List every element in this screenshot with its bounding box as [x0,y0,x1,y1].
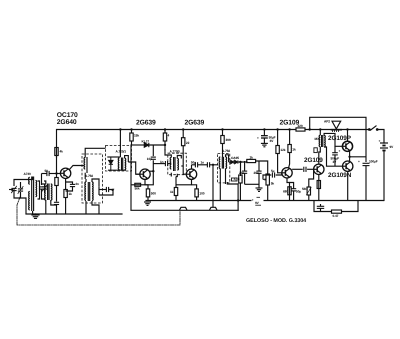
wire collector to driver cap [292,168,303,170]
wire R1 to base node [56,156,58,178]
IFT1 transformer windings [118,158,119,170]
wire secondary taps [38,181,40,199]
midpoint cap 500uF between bases [332,146,338,166]
wire antenna top [14,177,33,187]
wire 470 resistor [175,177,177,189]
antenna input stub [9,189,13,191]
wire Q2 emitter [145,179,148,189]
wire 1k leads [289,130,291,145]
wire diode to load [229,161,231,163]
secondary winding driver transformer [324,136,325,148]
node rail x347.5 [346,128,348,130]
node rail x277.6 [276,128,278,130]
svg-text:22: 22 [186,141,190,145]
battery 9V [380,143,388,151]
svg-text:2G109: 2G109 [280,119,300,126]
svg-text:50: 50 [45,169,49,173]
svg-text:A.775B: A.775B [170,149,181,153]
resistor R2 bias [55,178,58,186]
wire Q4 collector [289,157,290,169]
resistor R1 4k collector feed [55,148,58,156]
capacitor 10p [151,157,156,159]
svg-text:680: 680 [283,190,288,194]
wire cap into box [168,163,172,165]
wire bias bottom [56,205,58,215]
wire IFT1 secondary out to T2 base [128,162,140,174]
svg-text:2G109N: 2G109N [328,172,352,179]
svg-text:4k: 4k [60,150,64,154]
wire R9 leads [222,130,224,136]
svg-text:1k: 1k [170,190,174,194]
svg-text:399: 399 [226,138,231,142]
resistor 680 emitter Q4 [288,187,291,195]
wire top supply rail [57,130,369,158]
svg-text:1k: 1k [250,156,254,160]
wire R6 down [147,197,149,201]
svg-text:A.756: A.756 [222,149,230,153]
wire primary top [319,130,321,136]
node base T1 [55,172,57,174]
wire Q3 emitter [192,179,197,189]
transistor Q2 2G639 IF1 [140,169,150,179]
wire lower line right [342,201,359,212]
wire C2 leads [20,182,22,188]
svg-text:+: + [252,198,254,202]
dash-dot tuning gang link [17,197,180,225]
svg-text:OC170: OC170 [57,112,78,119]
svg-text:2G639: 2G639 [185,119,205,126]
electrolytic 5uF coupling [272,172,274,177]
driver transformer winding [319,135,320,147]
wire rail to IFT1 [119,130,121,158]
IFT2 internal wires [165,149,183,177]
wiper to cap [263,175,271,180]
node rail x289.6 [288,128,290,130]
svg-text:A740: A740 [24,172,32,176]
node collector [152,170,154,172]
wire Q2 collector stub [150,170,154,172]
wire top rail after switch [377,130,384,144]
wires box bottom to bus [86,179,99,214]
svg-text:20n: 20n [254,171,259,175]
wire 20n b [258,161,260,171]
wire diode top line [107,156,120,158]
capacitor 47 right of box [106,187,108,192]
svg-text:50µ: 50µ [296,190,301,194]
svg-text:1k: 1k [69,192,73,196]
coupling caps line [192,164,196,166]
svg-text:OA95: OA95 [231,156,239,160]
wire 20n a [244,161,246,171]
svg-text:+: + [339,149,341,153]
wire primary bottom to Q5 collector [319,147,321,164]
svg-text:4n: 4n [75,182,79,186]
node rail x320.3 [319,128,321,130]
wire osc coil leads [44,181,46,184]
resistor 0.47 feedback [332,210,342,213]
capacitor 47 IFT3 bottom [232,178,238,181]
svg-text:1k: 1k [292,148,296,152]
svg-text:+: + [379,139,381,143]
resistor Q5 emitter [317,181,320,189]
ground 50uF [261,143,268,146]
wire NTC [309,169,314,187]
wires IFT1 internal [108,156,128,171]
svg-text:100: 100 [199,192,204,196]
svg-text:2G109: 2G109 [304,157,323,164]
dashed box oscillator unit [82,154,103,203]
resistor 220 series in rail [296,128,305,131]
trimmer cap left of osc [39,187,44,189]
dashed box IFT3 A.756 [218,153,230,183]
node x309.7 [309,128,311,130]
resistor 470 [174,188,177,196]
wire top link line [310,117,366,162]
wire C1 bottom [14,191,21,198]
svg-text:GELOSO - MOD. G.3304: GELOSO - MOD. G.3304 [246,218,306,224]
wire Q3 collector up [191,165,193,169]
IFT3 windings [219,157,220,169]
wire secondary bottom to N base [324,147,343,166]
svg-text:2G109P: 2G109P [328,135,352,142]
wire R7 leads [164,130,166,134]
battery polarity label on bottom rail [252,197,264,207]
wire base line T1 [42,173,47,175]
wire caps to IFT3 [210,164,218,166]
wire Q6 emitter to mid node [349,151,351,157]
wire left module bottom line [26,213,122,215]
svg-text:0.47: 0.47 [333,214,339,218]
resistor R3 emitter 1k [64,190,67,198]
capacitor 50u coupling [195,162,197,167]
capacitor 1n coupling [207,162,209,167]
resistor 1k AF filter horizontal [247,159,256,162]
ground AF filter [256,188,263,191]
node det out [239,161,241,163]
transistor Q1 OC170 mixer [60,168,70,178]
transistor Q4 2G109 AF [282,168,292,178]
capacitor 20n a [242,171,247,173]
wire cap to Q5 base [307,168,314,170]
wire Q4 emitter [287,178,290,201]
ground left module [32,214,39,218]
wire cap47 [99,189,106,191]
wire osc feedback [66,182,73,184]
capacitor 20n b [256,171,261,173]
speaker AP/2 [331,121,342,132]
winding inside top [84,158,85,170]
antenna ferrite rod core [32,177,34,212]
wire R4 leads [131,130,133,134]
wire pot down [267,185,269,201]
wire secondary to P base [324,133,343,146]
wire AGC vertical [130,145,132,210]
node bottom rail x238 [237,199,239,201]
node mid [348,156,350,158]
resistor R7 [163,133,166,141]
resistor R8 2.2k [182,138,185,146]
jack trapezoid b [210,207,218,210]
wire riser from secondary rail [237,184,239,210]
wire secondary up lead [41,174,43,186]
svg-text:50µ: 50µ [191,160,196,164]
transistor Q7 2G109N [343,161,353,171]
svg-text:5k: 5k [271,182,275,186]
wire Q6 collector to rail [347,130,349,142]
wire collector bus vertical [145,160,153,185]
lower output line [314,201,332,212]
wire R2 down [56,186,58,202]
wire AF line 2 [256,161,268,174]
jack trapezoid a [180,207,188,210]
resistor R4 on AGC [130,133,133,141]
wire AF line [241,161,247,162]
transformer inside bottom right winding [92,182,93,200]
svg-text:15k: 15k [134,134,139,138]
capacitor 1n left of IFT2 [165,161,167,166]
wire Q5 emitter [318,175,320,201]
dashed box IFT1 [106,146,132,172]
antenna coil winding upper left [29,177,30,184]
transistor Q3 2G639 IF2 [186,169,196,179]
svg-text:56k: 56k [135,187,140,191]
wire Q1 collector [69,166,82,170]
wire R3 down [65,198,67,215]
wire mid node to out cap [350,156,366,158]
svg-text:100µF: 100µF [369,160,378,164]
capacitor osc feedback [70,184,75,186]
IFT3 internal wires [220,155,228,201]
node diode line [164,144,166,146]
line y184.8 Q3 [176,184,192,186]
wire between caps [198,164,208,166]
diode D1 AGC [144,143,149,147]
wire link from osc unit [85,148,105,154]
resistor R6 emitter 500 [146,189,149,197]
NTC resistor [306,187,311,195]
coupling capacitor base T1 [47,171,49,176]
electrolytic 50uF on rail [261,130,268,144]
svg-text:1n: 1n [201,160,205,164]
wire link to IFT2 [153,163,165,165]
svg-text:12k: 12k [280,148,285,152]
node rail x165 [164,128,166,130]
svg-text:AP2: AP2 [324,120,330,124]
diode D2 detector [231,160,238,164]
wire mid node to Q7 [349,157,351,162]
svg-text:2G640: 2G640 [57,119,77,126]
antenna coil winding lower left [29,192,30,210]
resistor small in P base feed [314,148,317,153]
transistor Q6 2G109P [342,141,352,151]
transistor Q5 2G109 driver [314,164,324,174]
resistor 100 emitter Q3 [195,189,198,197]
wire det load down [239,183,241,201]
wire bottom rail [146,200,384,202]
svg-text:M3: M3 [315,137,320,141]
electrolytic on lower line [317,204,324,212]
svg-text:A.756: A.756 [85,174,93,178]
wire cap drop [152,145,154,156]
wires bypass [290,183,294,189]
switch on rail [369,126,379,131]
wire 12k [277,130,279,146]
bias line y184.8 [131,184,145,186]
node rail IFT1 feed [119,128,121,130]
wire secondary bottom rail [131,209,238,211]
ground main rail [144,202,151,205]
electrolytic 10uF driver coupling [304,167,306,172]
resistor R9 3.9k [221,136,224,144]
resistor 1k collector Q4 [288,145,291,153]
resistor 12k [276,146,279,154]
trimmer cap b [42,185,47,192]
output electrolytic 100uF [363,163,370,200]
wire trimmer b [42,184,45,187]
oscillator coil L2 [48,184,49,201]
resistor det load 4.7k [239,175,242,183]
antenna coil winding right [36,181,37,197]
diode inside IFT1 [109,157,113,170]
variable capacitor C1 antenna [11,186,17,193]
capacitor on bias lower [54,202,59,204]
dashed box IFT2 A.775B [168,153,187,175]
IFT2 windings [170,158,171,170]
wire Q2 base L [136,173,140,175]
volume potentiometer 5k [263,174,269,185]
resistor 56k horizontal [135,183,141,186]
bypass cap 50uF Q4 [291,189,296,191]
wire battery down lead [383,151,385,201]
node caps line [212,164,214,166]
wire cap to base Q4 [276,173,282,175]
wire R8 leads [182,130,184,138]
node rail 50uF [263,128,265,130]
svg-text:+: + [358,160,360,164]
svg-text:20n: 20n [239,171,244,175]
svg-text:500: 500 [151,192,156,196]
wire 470 down [175,196,177,201]
svg-text:+: + [257,136,259,140]
svg-text:1n: 1n [160,160,164,164]
svg-text:10p: 10p [147,157,152,161]
wire Q1 emitter [65,179,67,190]
wire to bottom [196,197,198,201]
node rail x131.5 [130,128,132,130]
wire collector into box [82,165,84,167]
wire diode line [131,144,144,146]
wire IFT3 bottom link [227,182,238,184]
svg-text:560: 560 [302,187,307,191]
transformer inside bottom left winding [85,182,86,200]
wire down to jack [212,165,214,208]
node rail x183.2 [182,128,184,130]
wire Q7 emitter down [347,171,349,200]
svg-text:5µ: 5µ [271,169,275,173]
wire gnd link [245,183,259,185]
svg-text:A.725/1: A.725/1 [116,150,127,154]
wire rod bottom to bus [32,211,34,214]
transformer core [88,182,89,201]
variable capacitor C2 tuning [18,186,24,194]
node rail x222.5 [221,128,223,130]
svg-text:2G639: 2G639 [136,119,156,126]
